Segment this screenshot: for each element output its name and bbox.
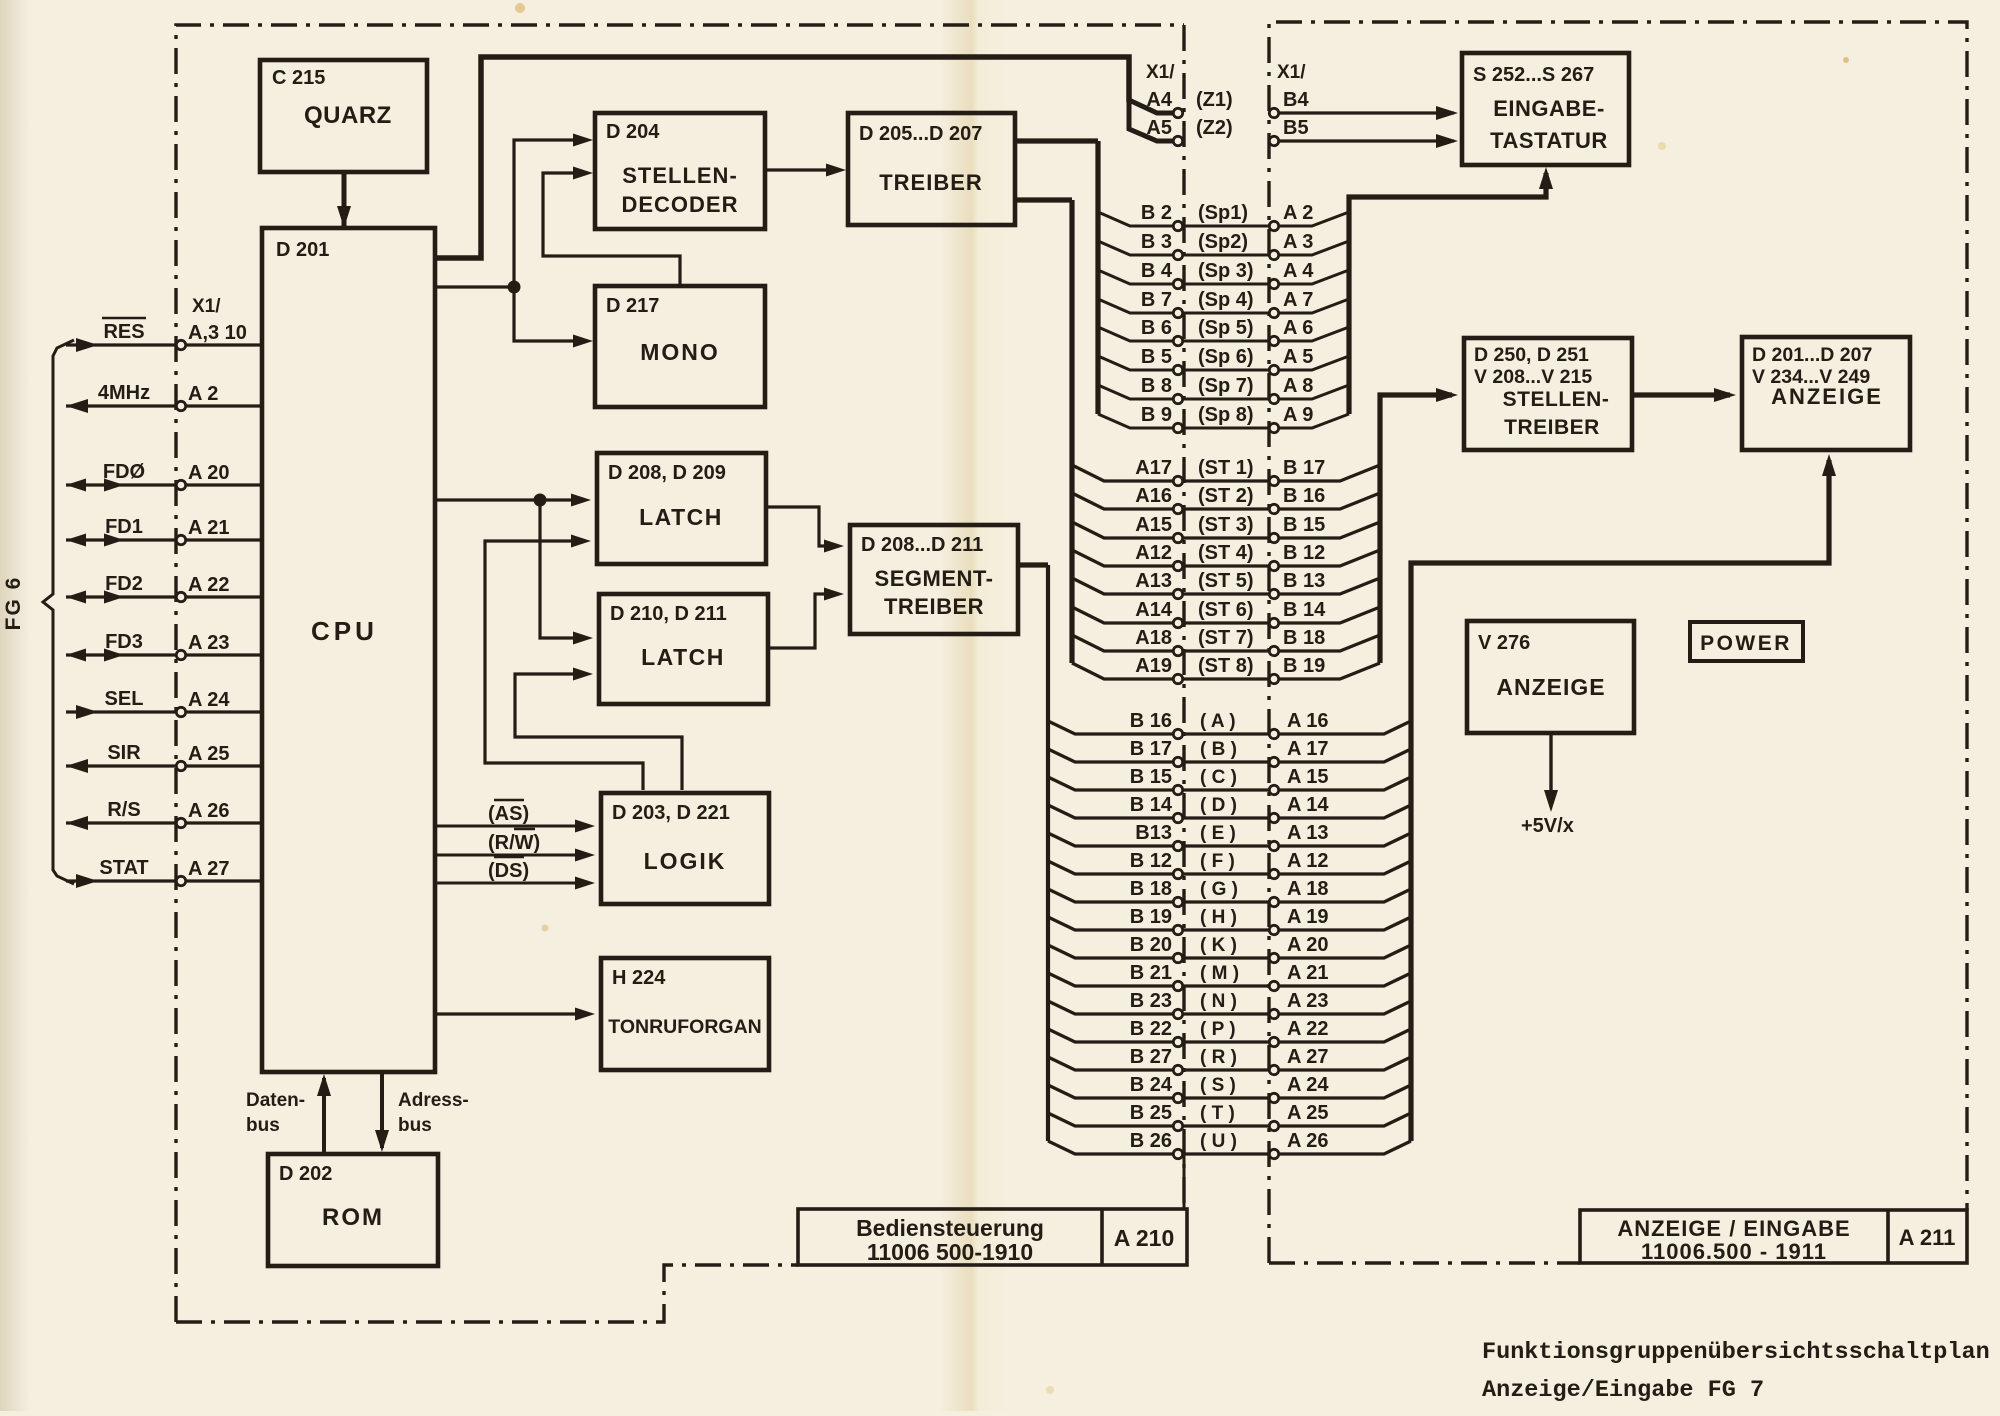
svg-text:B 21: B 21 xyxy=(1130,962,1172,984)
svg-text:CPU: CPU xyxy=(311,616,378,646)
svg-text:Daten-: Daten- xyxy=(246,1090,305,1111)
svg-text:A4: A4 xyxy=(1146,89,1172,111)
svg-text:(Sp 8): (Sp 8) xyxy=(1198,404,1254,426)
svg-text:A 23: A 23 xyxy=(188,632,230,654)
svg-text:STELLEN-: STELLEN- xyxy=(1503,388,1610,411)
svg-text:A 22: A 22 xyxy=(188,574,230,596)
svg-text:( E ): ( E ) xyxy=(1200,823,1236,844)
svg-text:B 5: B 5 xyxy=(1141,346,1172,368)
svg-text:( N ): ( N ) xyxy=(1200,991,1237,1012)
svg-text:V 208...V 215: V 208...V 215 xyxy=(1474,366,1592,388)
svg-text:SEL: SEL xyxy=(105,688,144,710)
svg-text:(ST 2): (ST 2) xyxy=(1198,485,1254,507)
svg-text:B4: B4 xyxy=(1283,89,1309,111)
svg-text:LOGIK: LOGIK xyxy=(644,848,727,874)
svg-text:A 5: A 5 xyxy=(1283,346,1313,368)
svg-text:A 13: A 13 xyxy=(1287,822,1329,844)
svg-text:FDØ: FDØ xyxy=(103,461,145,483)
svg-text:FD2: FD2 xyxy=(105,573,143,595)
svg-text:D 201: D 201 xyxy=(276,239,329,261)
svg-text:D 217: D 217 xyxy=(606,295,659,317)
svg-text:RES: RES xyxy=(103,321,144,343)
svg-text:( K ): ( K ) xyxy=(1200,935,1237,956)
svg-text:R/S: R/S xyxy=(107,799,140,821)
svg-text:A13: A13 xyxy=(1135,570,1172,592)
svg-text:B 16: B 16 xyxy=(1283,485,1325,507)
svg-text:C 215: C 215 xyxy=(272,67,325,89)
svg-text:( S ): ( S ) xyxy=(1200,1075,1236,1096)
svg-text:(ST 5): (ST 5) xyxy=(1198,570,1254,592)
svg-text:B13: B13 xyxy=(1135,822,1172,844)
svg-text:EINGABE-: EINGABE- xyxy=(1493,96,1605,121)
svg-text:D 204: D 204 xyxy=(606,121,660,143)
svg-text:B 18: B 18 xyxy=(1283,627,1325,649)
svg-text:A 24: A 24 xyxy=(188,689,230,711)
svg-text:A 210: A 210 xyxy=(1114,1225,1175,1251)
svg-text:( D ): ( D ) xyxy=(1200,795,1237,816)
svg-text:B 24: B 24 xyxy=(1130,1074,1173,1096)
svg-text:( C ): ( C ) xyxy=(1200,767,1237,788)
svg-text:B5: B5 xyxy=(1283,117,1309,139)
svg-text:A 24: A 24 xyxy=(1287,1074,1329,1096)
svg-text:A5: A5 xyxy=(1146,117,1172,139)
svg-text:A 18: A 18 xyxy=(1287,878,1329,900)
svg-text:B 15: B 15 xyxy=(1283,514,1325,536)
svg-text:( T ): ( T ) xyxy=(1200,1103,1235,1124)
svg-text:TREIBER: TREIBER xyxy=(884,594,984,619)
svg-text:STAT: STAT xyxy=(99,857,148,879)
svg-text:(ST 1): (ST 1) xyxy=(1198,457,1254,479)
svg-text:B 22: B 22 xyxy=(1130,1018,1172,1040)
svg-text:B 15: B 15 xyxy=(1130,766,1172,788)
svg-text:bus: bus xyxy=(246,1115,280,1136)
svg-text:A 27: A 27 xyxy=(1287,1046,1329,1068)
svg-text:(DS): (DS) xyxy=(488,860,529,882)
svg-text:A 4: A 4 xyxy=(1283,260,1314,282)
svg-text:A 14: A 14 xyxy=(1287,794,1329,816)
svg-text:A19: A19 xyxy=(1135,655,1172,677)
svg-text:SIR: SIR xyxy=(107,742,141,764)
svg-text:A 27: A 27 xyxy=(188,858,230,880)
svg-text:ROM: ROM xyxy=(322,1204,384,1231)
svg-text:bus: bus xyxy=(398,1115,432,1136)
svg-text:( M ): ( M ) xyxy=(1200,963,1239,984)
svg-text:B 13: B 13 xyxy=(1283,570,1325,592)
svg-text:Anzeige/Eingabe FG 7: Anzeige/Eingabe FG 7 xyxy=(1482,1377,1764,1404)
svg-text:D 203, D 221: D 203, D 221 xyxy=(612,802,730,824)
svg-text:FG 6: FG 6 xyxy=(2,576,25,631)
svg-text:B 20: B 20 xyxy=(1130,934,1172,956)
svg-text:Bediensteuerung: Bediensteuerung xyxy=(856,1215,1044,1241)
svg-text:B 2: B 2 xyxy=(1141,202,1172,224)
svg-text:A 21: A 21 xyxy=(1287,962,1329,984)
svg-text:TREIBER: TREIBER xyxy=(879,170,983,195)
svg-text:A 2: A 2 xyxy=(188,383,218,405)
svg-text:11006 500-1910: 11006 500-1910 xyxy=(867,1239,1033,1265)
svg-text:A16: A16 xyxy=(1135,485,1172,507)
svg-text:A 20: A 20 xyxy=(1287,934,1329,956)
svg-text:A 21: A 21 xyxy=(188,517,230,539)
svg-text:B 18: B 18 xyxy=(1130,878,1172,900)
svg-text:( P ): ( P ) xyxy=(1200,1019,1236,1040)
svg-text:S 252...S 267: S 252...S 267 xyxy=(1473,64,1594,86)
svg-text:A 26: A 26 xyxy=(1287,1130,1329,1152)
svg-text:X1/: X1/ xyxy=(1277,62,1306,83)
svg-text:B 23: B 23 xyxy=(1130,990,1172,1012)
svg-text:B 17: B 17 xyxy=(1130,738,1172,760)
svg-text:TONRUFORGAN: TONRUFORGAN xyxy=(608,1016,761,1038)
svg-text:B 19: B 19 xyxy=(1130,906,1172,928)
svg-text:A 17: A 17 xyxy=(1287,738,1329,760)
svg-text:A18: A18 xyxy=(1135,627,1172,649)
svg-text:QUARZ: QUARZ xyxy=(304,102,392,129)
svg-text:A 8: A 8 xyxy=(1283,375,1313,397)
svg-text:B 25: B 25 xyxy=(1130,1102,1172,1124)
svg-text:ANZEIGE: ANZEIGE xyxy=(1496,674,1605,700)
svg-text:TASTATUR: TASTATUR xyxy=(1490,128,1608,153)
svg-text:D 208, D 209: D 208, D 209 xyxy=(608,462,726,484)
svg-text:A 25: A 25 xyxy=(188,743,230,765)
svg-text:A 22: A 22 xyxy=(1287,1018,1329,1040)
svg-text:11006.500 - 1911: 11006.500 - 1911 xyxy=(1641,1239,1827,1264)
svg-text:B 3: B 3 xyxy=(1141,231,1172,253)
svg-text:B 12: B 12 xyxy=(1130,850,1172,872)
svg-text:H 224: H 224 xyxy=(612,967,666,989)
svg-text:ANZEIGE: ANZEIGE xyxy=(1771,384,1883,409)
svg-text:A 211: A 211 xyxy=(1899,1225,1956,1250)
svg-text:D 208...D 211: D 208...D 211 xyxy=(861,534,983,556)
svg-text:MONO: MONO xyxy=(640,339,720,365)
svg-text:(Sp 7): (Sp 7) xyxy=(1198,375,1254,397)
svg-text:X1/: X1/ xyxy=(192,296,221,317)
svg-text:(ST 8): (ST 8) xyxy=(1198,655,1254,677)
svg-text:TREIBER: TREIBER xyxy=(1504,416,1600,439)
svg-text:( A ): ( A ) xyxy=(1200,711,1236,732)
svg-text:A 19: A 19 xyxy=(1287,906,1329,928)
svg-text:A 16: A 16 xyxy=(1287,710,1329,732)
svg-text:D 250, D 251: D 250, D 251 xyxy=(1474,344,1589,366)
svg-text:B 27: B 27 xyxy=(1130,1046,1172,1068)
svg-text:(AS): (AS) xyxy=(488,803,529,825)
svg-text:STELLEN-: STELLEN- xyxy=(622,163,738,188)
svg-text:B 14: B 14 xyxy=(1130,794,1173,816)
svg-text:A 3: A 3 xyxy=(1283,231,1313,253)
svg-text:B 8: B 8 xyxy=(1141,375,1172,397)
svg-text:( F ): ( F ) xyxy=(1200,851,1235,872)
svg-text:FD1: FD1 xyxy=(105,516,143,538)
svg-text:B 19: B 19 xyxy=(1283,655,1325,677)
svg-text:A15: A15 xyxy=(1135,514,1172,536)
svg-text:(Z1): (Z1) xyxy=(1196,89,1233,111)
svg-text:(ST 7): (ST 7) xyxy=(1198,627,1254,649)
svg-text:B 4: B 4 xyxy=(1141,260,1173,282)
svg-text:A,3 10: A,3 10 xyxy=(188,322,247,344)
svg-text:A 20: A 20 xyxy=(188,462,230,484)
svg-text:B 14: B 14 xyxy=(1283,599,1326,621)
svg-text:(Sp 3): (Sp 3) xyxy=(1198,260,1254,282)
svg-text:(R/W): (R/W) xyxy=(488,832,540,854)
svg-text:ANZEIGE / EINGABE: ANZEIGE / EINGABE xyxy=(1617,1216,1850,1241)
svg-text:B 7: B 7 xyxy=(1141,289,1172,311)
svg-text:A12: A12 xyxy=(1135,542,1172,564)
svg-text:X1/: X1/ xyxy=(1146,62,1175,83)
svg-text:B 16: B 16 xyxy=(1130,710,1172,732)
svg-text:B 9: B 9 xyxy=(1141,404,1172,426)
svg-text:(ST 4): (ST 4) xyxy=(1198,542,1254,564)
svg-text:(ST 3): (ST 3) xyxy=(1198,514,1254,536)
svg-text:D 205...D 207: D 205...D 207 xyxy=(859,123,982,145)
svg-text:A 15: A 15 xyxy=(1287,766,1329,788)
svg-text:A17: A17 xyxy=(1135,457,1172,479)
svg-text:A 26: A 26 xyxy=(188,800,230,822)
svg-text:A 6: A 6 xyxy=(1283,317,1313,339)
svg-text:A 23: A 23 xyxy=(1287,990,1329,1012)
svg-text:A 9: A 9 xyxy=(1283,404,1313,426)
svg-text:4MHz: 4MHz xyxy=(98,382,150,404)
svg-text:B 6: B 6 xyxy=(1141,317,1172,339)
svg-text:(Sp1): (Sp1) xyxy=(1198,202,1248,224)
svg-text:D 210, D 211: D 210, D 211 xyxy=(610,603,727,625)
svg-text:LATCH: LATCH xyxy=(641,644,725,670)
svg-text:DECODER: DECODER xyxy=(621,192,738,217)
svg-text:( H ): ( H ) xyxy=(1200,907,1237,928)
svg-text:( G ): ( G ) xyxy=(1200,879,1238,900)
svg-text:( U ): ( U ) xyxy=(1200,1131,1237,1152)
svg-text:( R ): ( R ) xyxy=(1200,1047,1237,1068)
svg-text:(ST 6): (ST 6) xyxy=(1198,599,1254,621)
svg-text:A 7: A 7 xyxy=(1283,289,1313,311)
svg-text:A 25: A 25 xyxy=(1287,1102,1329,1124)
svg-text:A 12: A 12 xyxy=(1287,850,1329,872)
svg-text:D 201...D 207: D 201...D 207 xyxy=(1752,344,1872,366)
svg-text:POWER: POWER xyxy=(1700,632,1792,655)
svg-text:B 12: B 12 xyxy=(1283,542,1325,564)
svg-text:A14: A14 xyxy=(1135,599,1173,621)
svg-text:LATCH: LATCH xyxy=(639,504,723,530)
svg-text:(Sp2): (Sp2) xyxy=(1198,231,1248,253)
svg-text:(Sp 5): (Sp 5) xyxy=(1198,317,1254,339)
svg-text:SEGMENT-: SEGMENT- xyxy=(875,566,994,591)
svg-text:A 2: A 2 xyxy=(1283,202,1313,224)
svg-text:(Sp 6): (Sp 6) xyxy=(1198,346,1254,368)
svg-text:B 26: B 26 xyxy=(1130,1130,1172,1152)
svg-text:Funktionsgruppenübersichtsscha: Funktionsgruppenübersichtsschaltplan xyxy=(1482,1339,1990,1366)
svg-text:FD3: FD3 xyxy=(105,631,143,653)
svg-text:( B ): ( B ) xyxy=(1200,739,1237,760)
svg-text:Adress-: Adress- xyxy=(398,1090,469,1111)
svg-text:(Z2): (Z2) xyxy=(1196,117,1233,139)
svg-text:V 276: V 276 xyxy=(1478,632,1530,654)
svg-text:B 17: B 17 xyxy=(1283,457,1325,479)
svg-text:+5V/x: +5V/x xyxy=(1521,815,1574,837)
svg-text:(Sp 4): (Sp 4) xyxy=(1198,289,1254,311)
svg-text:D 202: D 202 xyxy=(279,1163,332,1185)
